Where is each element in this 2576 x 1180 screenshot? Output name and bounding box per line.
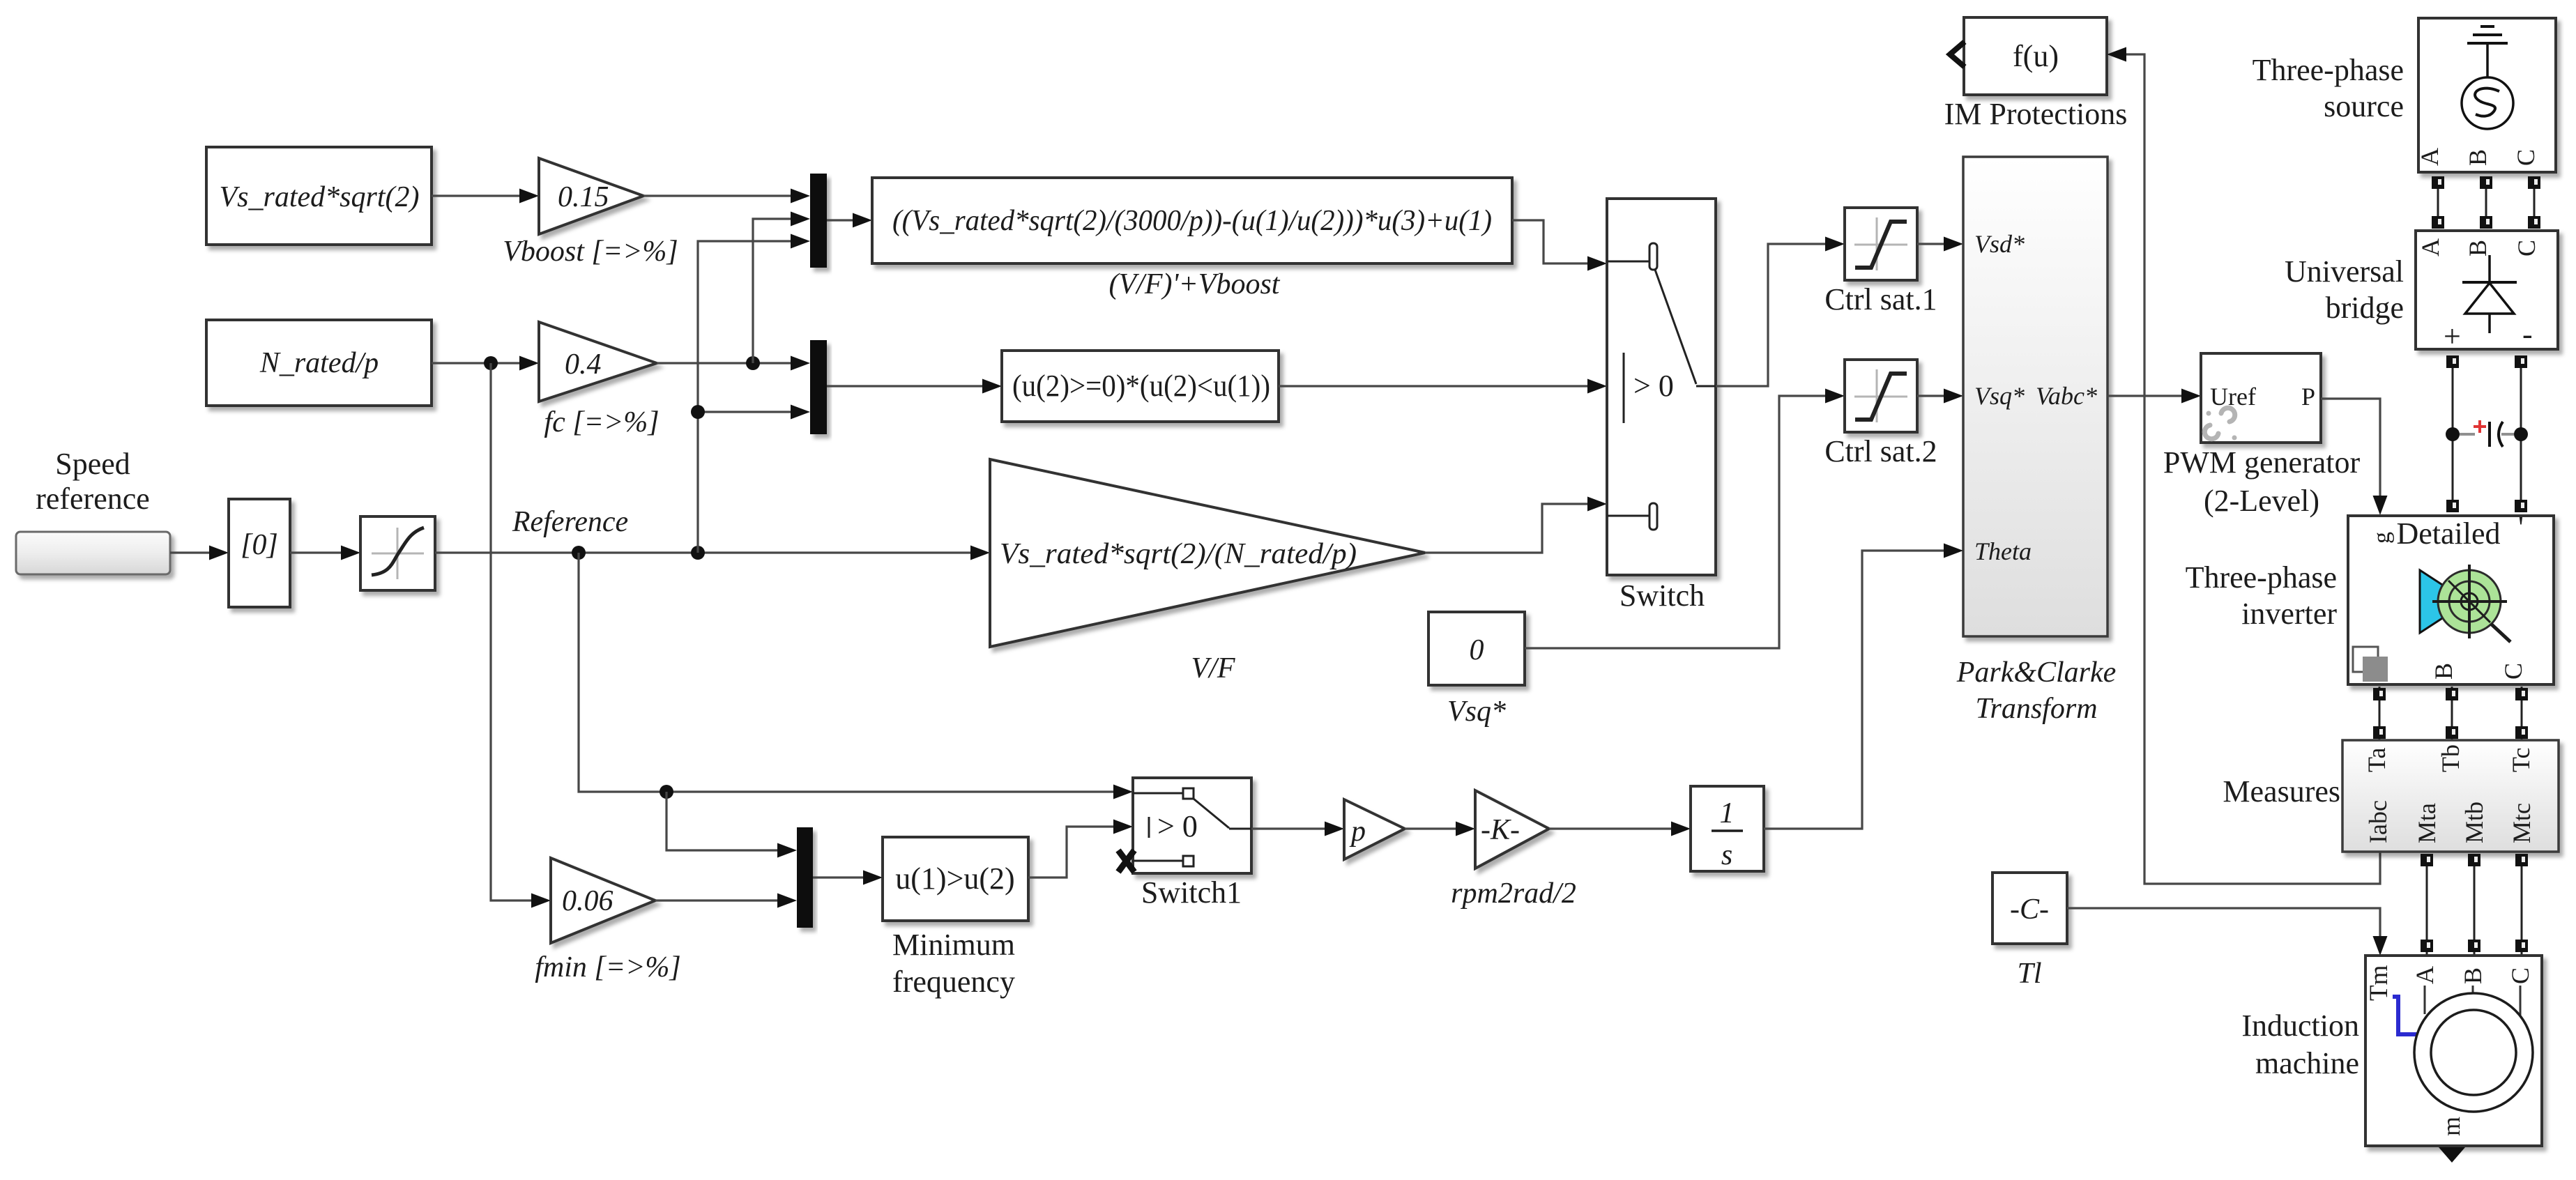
wire minimum frequency to Switch1 input2: [1028, 820, 1133, 878]
svg-text:C: C: [2512, 149, 2540, 166]
svg-text:C: C: [2499, 663, 2527, 680]
svg-text:[0]: [0]: [241, 529, 278, 561]
wire bridge - down to inverter: [2515, 355, 2527, 512]
wire inverter Ta to measures: [2373, 687, 2386, 740]
svg-text:Tb: Tb: [2437, 744, 2464, 772]
svg-text:A: A: [2416, 148, 2444, 166]
svg-text:Tc: Tc: [2507, 748, 2535, 772]
svg-text:-: -: [2522, 317, 2533, 351]
ground symbol: [2480, 25, 2494, 28]
source block Speed reference: [16, 532, 170, 574]
svg-text:f(u): f(u): [2013, 39, 2059, 73]
wire V/F gain to Switch input3: [1425, 497, 1607, 553]
svg-text:IM Protections: IM Protections: [1944, 97, 2128, 131]
wire Ctrl sat.2 to Vsq*: [1917, 389, 1963, 404]
saturation Ctrl sat.2: [1845, 360, 1917, 432]
gain p: [1344, 799, 1405, 859]
wire Mta to induction A: [2421, 854, 2433, 955]
wire Ctrl sat.1 to Vsd*: [1917, 237, 1963, 252]
Fcn block Minimum frequency u(1)>u(2): [883, 837, 1028, 921]
svg-text:Ctrl sat.2: Ctrl sat.2: [1824, 434, 1937, 468]
wire fmin gain to mux M3 input2: [655, 894, 797, 908]
svg-text:Mtc: Mtc: [2508, 803, 2536, 843]
node junction on fc output: [746, 356, 760, 370]
svg-text:Mtb: Mtb: [2460, 802, 2488, 843]
unconnected m port arrow: [2439, 1147, 2465, 1163]
svg-text:Ctrl sat.1: Ctrl sat.1: [1824, 282, 1937, 316]
svg-text:A: A: [2411, 966, 2439, 984]
wire Reference up-branch to mux M1 input3 and mux M2 input2: [698, 234, 810, 553]
gain Vboost 0.15: [539, 158, 643, 234]
svg-text:frequency: frequency: [892, 965, 1015, 999]
wire fc gain to mux M2 input1: [657, 356, 810, 371]
subsystem Three-phase inverter Detailed: [2348, 510, 2554, 684]
svg-text:Transform: Transform: [1975, 693, 2097, 725]
svg-text:0: 0: [1470, 634, 1484, 666]
Fcn block IM Protections f(u): [1964, 17, 2107, 95]
subsystem Park&Clarke Transform: [1963, 157, 2108, 636]
wire [0] to rate limiter: [290, 546, 360, 560]
svg-text:1: 1: [1720, 797, 1735, 829]
wire speed reference to [0] block: [170, 546, 229, 560]
AC source circle: [2462, 77, 2513, 129]
inverter icon: [2420, 570, 2468, 633]
mux M3: [797, 827, 813, 928]
node junction DC bus right: [2514, 427, 2528, 441]
svg-text:Vs_rated*sqrt(2): Vs_rated*sqrt(2): [220, 181, 420, 213]
wire Reference main line to V/F gain: [435, 546, 990, 560]
svg-text:+: +: [2444, 319, 2461, 353]
svg-text:Detailed: Detailed: [2396, 516, 2500, 551]
switch Switch: [1607, 199, 1716, 575]
svg-text:(u(2)>=0)*(u(2)<u(1)): (u(2)>=0)*(u(2)<u(1)): [1012, 369, 1270, 403]
gain fc 0.4: [539, 322, 657, 401]
svg-text:0.15: 0.15: [558, 181, 609, 213]
svg-text:Theta: Theta: [1974, 537, 2032, 565]
wire integrator to Theta: [1764, 544, 1963, 829]
wire Vboost gain to mux M1 input1: [643, 189, 810, 204]
svg-text:Speed: Speed: [55, 447, 130, 481]
svg-text:Vboost [=>%]: Vboost [=>%]: [503, 236, 678, 268]
svg-text:fmin [=>%]: fmin [=>%]: [535, 951, 681, 983]
svg-text:Three-phase: Three-phase: [2186, 560, 2337, 595]
svg-text:(V/F)'+Vboost: (V/F)'+Vboost: [1109, 268, 1281, 300]
svg-text:A: A: [2416, 238, 2444, 256]
svg-text:machine: machine: [2255, 1046, 2359, 1080]
mux M1: [810, 174, 827, 268]
unconnected input3 X mark: [1118, 850, 1134, 872]
diode symbol: [2488, 255, 2491, 282]
gain fmin 0.06: [551, 858, 655, 943]
svg-text:reference: reference: [36, 482, 150, 516]
Tm step icon: [2393, 997, 2419, 1034]
switch Switch1: [1133, 778, 1251, 873]
svg-text:0.06: 0.06: [562, 885, 613, 917]
svg-text:Ta: Ta: [2363, 748, 2391, 772]
svg-text:B: B: [2464, 240, 2492, 256]
capacitor DC link: [2460, 420, 2514, 447]
wire feedback from Iabc to f(u) input: [2107, 47, 2380, 884]
svg-text:((Vs_rated*sqrt(2)/(3000/p))-(: ((Vs_rated*sqrt(2)/(3000/p))-(u(1)/u(2))…: [892, 205, 1492, 237]
svg-text:Vsq*: Vsq*: [1974, 382, 2025, 410]
svg-text:Tl: Tl: [2017, 958, 2041, 990]
wire mux M3 to minimum frequency block: [813, 871, 883, 885]
svg-text:P: P: [2301, 383, 2315, 411]
svg-text:V/F: V/F: [1191, 652, 1235, 684]
svg-text:(2-Level): (2-Level): [2204, 484, 2319, 518]
svg-text:-K-: -K-: [1481, 814, 1520, 846]
node junction at mux M2 input2 branch: [691, 405, 705, 419]
wire rpm2rad/2 to integrator: [1549, 822, 1691, 836]
wire Switch1 to gain p: [1251, 822, 1344, 836]
wire junction down to mux M3 input1: [666, 792, 797, 858]
wire inverter C to measures Tc: [2515, 687, 2528, 740]
svg-text:Measures: Measures: [2223, 774, 2340, 809]
svg-text:> 0: > 0: [1157, 809, 1198, 843]
wire Mtb to induction B: [2468, 854, 2480, 955]
svg-text:Uref: Uref: [2210, 383, 2256, 411]
saturation Ctrl sat.1: [1845, 208, 1917, 280]
svg-text:C: C: [2506, 967, 2534, 984]
block N_rated/p constant: [206, 320, 432, 406]
node junction on N_rated/p output: [484, 356, 498, 370]
Fcn block (V/F)'+Vboost: [872, 178, 1512, 263]
block constant 0: [1428, 612, 1525, 685]
svg-text:fc [=>%]: fc [=>%]: [544, 406, 659, 438]
wire source C to bridge C: [2528, 176, 2540, 229]
subsystem Measures: [2342, 740, 2559, 852]
svg-text:Switch1: Switch1: [1141, 875, 1242, 910]
subsystem Induction machine: [2365, 956, 2542, 1146]
svg-text:Vsq*: Vsq*: [1447, 696, 1506, 728]
machine circles: [2414, 993, 2533, 1112]
wire N_rated/p branch down to fmin gain: [491, 363, 551, 908]
svg-text:p: p: [1349, 815, 1366, 848]
svg-text:> 0: > 0: [1633, 369, 1674, 403]
block [0] rate transition: [229, 499, 290, 607]
svg-text:u(1)>u(2): u(1)>u(2): [895, 861, 1014, 896]
mux M2: [810, 340, 827, 434]
wire Vs_rated to Vboost gain: [432, 189, 539, 204]
svg-text:0.4: 0.4: [565, 348, 602, 381]
svg-text:rpm2rad/2: rpm2rad/2: [1451, 878, 1576, 910]
svg-text:m: m: [2437, 1117, 2465, 1136]
block constant -C-: [1992, 873, 2067, 944]
svg-text:': ': [2518, 510, 2524, 544]
wire gain p to rpm2rad/2: [1405, 822, 1475, 836]
wire fc branch up to mux M1 input2: [753, 212, 810, 364]
wire Mtc to induction C: [2515, 854, 2528, 955]
integrator 1/s: [1691, 786, 1764, 871]
svg-text:Universal: Universal: [2285, 254, 2404, 289]
block Universal bridge: [2416, 231, 2558, 353]
wire constant 0 to Ctrl sat.2: [1525, 389, 1845, 649]
svg-text:Induction: Induction: [2241, 1009, 2359, 1043]
subsystem physical icon squares: [2353, 647, 2378, 672]
svg-text:inverter: inverter: [2241, 597, 2337, 631]
wire source A to bridge A: [2432, 176, 2444, 229]
svg-text:source: source: [2324, 89, 2404, 123]
wire source B to bridge B: [2480, 176, 2492, 229]
wire bridge + down to inverter: [2446, 355, 2459, 512]
svg-text:PWM generator: PWM generator: [2163, 445, 2361, 480]
node junction Reference branch A: [572, 546, 586, 560]
block Three-phase source: [2416, 18, 2556, 172]
node junction on Switch1 feed line: [660, 785, 673, 799]
block rate limiter / saturation icon: [360, 516, 435, 590]
subsystem PWM generator (2-Level): [2201, 353, 2321, 443]
svg-text:B: B: [2459, 967, 2487, 984]
wire Fcn2 to Switch input2: [1279, 379, 1607, 394]
gain V/F big triangle: [990, 459, 1425, 647]
svg-text:Vabc*: Vabc*: [2036, 382, 2097, 410]
wire Reference branch down to Switch1 input1: [579, 553, 1133, 799]
wire PWM P output down to inverter gate g: [2321, 399, 2388, 515]
wire N_rated/p to fc gain: [432, 356, 539, 371]
gain rpm2rad/2 -K-: [1475, 790, 1549, 868]
wire inverter B to measures Tb: [2446, 687, 2458, 740]
block Vs_rated*sqrt(2) constant: [206, 147, 432, 245]
svg-text:B: B: [2430, 663, 2457, 680]
svg-text:C: C: [2513, 240, 2540, 256]
svg-text:Park&Clarke: Park&Clarke: [1956, 657, 2117, 689]
svg-text:N_rated/p: N_rated/p: [259, 347, 379, 379]
output open arrow of f(u): [1950, 42, 1965, 67]
svg-text:Tm: Tm: [2365, 965, 2393, 1001]
node junction DC bus left: [2446, 427, 2460, 441]
svg-text:g: g: [2369, 532, 2395, 544]
svg-text:Three-phase: Three-phase: [2253, 53, 2404, 87]
svg-text:Reference: Reference: [512, 506, 628, 538]
svg-text:bridge: bridge: [2326, 291, 2404, 325]
node junction Reference branch B: [691, 546, 705, 560]
svg-text:Switch: Switch: [1619, 578, 1705, 613]
svg-text:s: s: [1721, 839, 1732, 871]
svg-text:Iabc: Iabc: [2364, 800, 2392, 843]
svg-text:Vs_rated*sqrt(2)/(N_rated/p): Vs_rated*sqrt(2)/(N_rated/p): [1000, 538, 1357, 570]
wire mux M1 to Fcn (V/F)+Vboost: [827, 213, 872, 228]
wire -C- to induction machine Tm: [2067, 908, 2388, 956]
wire Switch output to Ctrl sat.1: [1716, 237, 1845, 387]
svg-text:Vsd*: Vsd*: [1974, 230, 2025, 258]
wire Vabc* to PWM Uref: [2108, 389, 2201, 404]
svg-text:Mta: Mta: [2413, 803, 2441, 843]
svg-text:Minimum: Minimum: [892, 928, 1015, 962]
Fcn block frequency window compare: [1002, 351, 1279, 422]
wire Fcn1 to Switch input1: [1512, 220, 1607, 271]
svg-text:B: B: [2464, 149, 2492, 166]
svg-text:-C-: -C-: [2010, 894, 2049, 926]
wire mux M2 to Fcn compare block: [827, 379, 1002, 394]
